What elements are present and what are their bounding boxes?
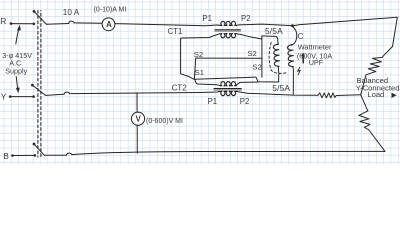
svg-text:UPF: UPF [309,58,324,67]
svg-text:C: C [298,32,304,41]
wire secondary loop lower rail [194,77,278,82]
svg-text:Load: Load [367,90,384,99]
CT1 primary winding P1-P2 [220,21,236,25]
wire fuse to ammeter [76,22,102,24]
switch linkage (dashed) [38,11,41,158]
wire wattmeter CC bottom lead [277,67,280,83]
wire R line to load corner [294,17,397,25]
wire CT1 primary out to line [236,24,291,26]
svg-text:S2: S2 [252,63,261,72]
supply arrow down [16,77,20,94]
svg-text:S2: S2 [194,50,203,59]
svg-text:(0-600)V MI: (0-600)V MI [146,118,183,125]
svg-text:10 A: 10 A [63,8,80,17]
resistor load B (zigzag) [359,111,370,130]
fuse F3 [66,153,72,155]
svg-text:P1: P1 [202,14,212,23]
svg-text:S2: S2 [247,49,256,58]
fuse F2 [64,92,70,94]
wire R to fuse [47,23,69,26]
wire CT1 secondary S2 lead (right, down) [236,34,262,77]
wire CT2 secondary S2 lead [237,82,259,85]
wire CT1 secondary S1 lead (left, down) [181,34,220,80]
voltmeter wire down to B line [136,125,138,153]
resistor load Y (zigzag) [318,93,336,98]
ammeter A1 (0-10)A MI [102,18,115,31]
wattmeter CC dashed boundary [269,43,286,74]
svg-text:Y: Y [1,92,7,102]
wire Y after switch to fuse [46,94,65,95]
CT1 core [215,30,241,31]
svg-text:P2: P2 [241,14,251,23]
wire CT2 primary out [237,92,318,96]
load branch R: corner to star [383,17,397,56]
wire Y resistor to star [336,94,361,97]
wire CT2 secondary S1 lead [195,80,220,86]
wattmeter potential coil PC [288,45,294,67]
CT2 primary winding P1-P2 [219,92,237,96]
node B (phase B terminal) [11,154,35,157]
CT2 secondary winding [220,82,236,86]
switch pole B [33,143,45,157]
node C junction on R line [291,24,294,27]
wire B after switch to fuse [44,154,66,156]
wire load B to bottom vertex [369,130,385,151]
supply arrow up [16,25,21,44]
switch pole Y [31,84,45,98]
wattmeter current coil CC [273,43,279,66]
wire to star point [361,75,366,95]
node R (phase R terminal) [10,22,34,25]
CT2 core [214,89,241,90]
svg-text:5/5A: 5/5A [265,26,283,36]
wire B line to load vertex [73,151,385,154]
svg-text:S1: S1 [195,68,204,77]
wire star to load B resistor [361,95,368,111]
wattmeter deflection mark [298,67,301,74]
wattmeter pointer arrow [301,52,305,62]
voltmeter tap wire from Y line [136,93,138,112]
svg-text:CT2: CT2 [172,83,187,92]
wire secondary loop upper rail [196,57,262,59]
svg-text:5/5A: 5/5A [272,83,290,93]
wire 5/5A top connector to wattmeter CC [262,36,278,43]
wire ammeter to CT1 primary [115,24,220,26]
svg-text:B: B [3,151,9,161]
svg-text:Supply: Supply [5,67,27,76]
svg-text:(0-10)A MI: (0-10)A MI [94,6,127,13]
resistor load R (zigzag) [366,56,383,75]
svg-text:V: V [136,115,142,124]
svg-text:P2: P2 [240,97,250,106]
svg-text:P1: P1 [208,97,218,106]
CT1 secondary winding S1-S2 [220,34,236,38]
wire PC bottom lead to Y line [292,67,295,96]
voltmeter V1 (0-600)V MI [131,112,144,125]
svg-text:CT1: CT1 [168,27,183,36]
fuse F1 10A [69,21,75,23]
switch pole R (TPST) [33,10,47,25]
svg-text:A: A [106,20,112,29]
wire secondary loop left vertical [194,58,195,79]
svg-text:Wattmeter: Wattmeter [298,43,332,52]
load pointer arrow [392,93,397,98]
wire fuse to CT2 primary [71,92,219,94]
wire PC top lead to C [292,26,297,45]
node Y (phase Y terminal) [9,95,34,98]
svg-text:R: R [0,16,6,26]
